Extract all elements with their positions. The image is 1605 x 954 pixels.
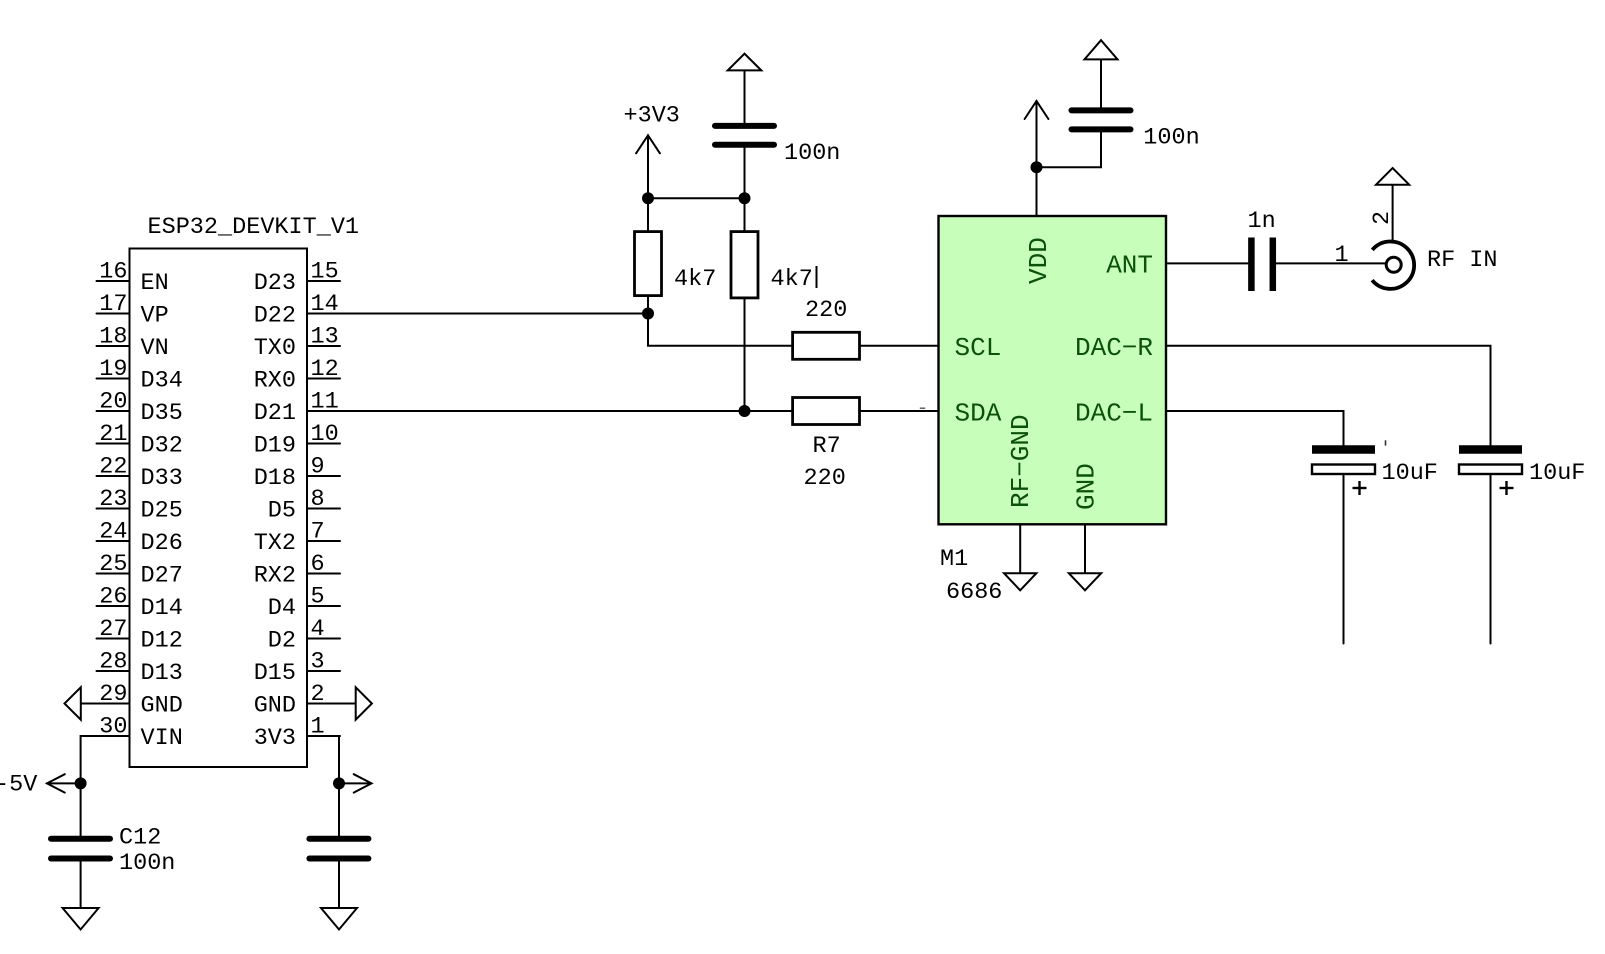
svg-text:D25: D25 (141, 498, 183, 525)
svg-text:D13: D13 (141, 660, 183, 687)
ESP32 left pin 17 VP (97, 291, 169, 330)
node D22 junction (642, 308, 654, 320)
ground symbol under C12 (63, 908, 99, 930)
svg-text:23: 23 (99, 486, 127, 513)
capacitor under 3V3 (309, 839, 368, 859)
node +3V3 right junction (739, 192, 751, 204)
ESP32 right pin 12 RX0 (254, 356, 340, 395)
svg-text:TX2: TX2 (254, 530, 296, 557)
svg-text:ANT: ANT (1106, 250, 1153, 280)
wire 4k7 right top (744, 198, 746, 231)
wire VIN pin30 to -5V node (81, 736, 130, 783)
ESP32 left pin 21 D32 (97, 421, 183, 460)
svg-text:17: 17 (99, 291, 127, 318)
wire 3V3 pin1 to right node (307, 736, 339, 783)
power label +3V3 (624, 103, 680, 232)
ESP32 right pin 10 D19 (254, 421, 340, 460)
svg-text:16: 16 (99, 259, 127, 286)
svg-text:1: 1 (1335, 242, 1349, 269)
svg-text:RX2: RX2 (254, 563, 296, 590)
wire below 10uF right (1490, 474, 1492, 644)
svg-text:22: 22 (99, 454, 127, 481)
svg-text:D5: D5 (268, 498, 296, 525)
resistor 4k7 right (731, 232, 817, 298)
ESP32 right pin 9 D18 (254, 454, 340, 493)
wire D22 to pullup node (307, 313, 648, 315)
svg-text:-5V: -5V (0, 772, 37, 799)
wire +3V3 rail horizontal (648, 197, 745, 199)
node -5V junction left (75, 777, 87, 789)
M1 GND pin ground (1069, 524, 1101, 590)
svg-text:10uF: 10uF (1529, 460, 1585, 487)
ESP32 right pin 3 D15 (254, 649, 340, 688)
resistor 4k7 left (635, 232, 717, 296)
svg-text:D22: D22 (254, 303, 296, 330)
svg-text:4: 4 (311, 616, 325, 643)
M1 pin name SDA (955, 399, 1002, 429)
svg-text:M1: M1 (940, 546, 968, 573)
svg-text:GND: GND (141, 693, 183, 720)
ESP32 right pin 13 TX0 (254, 324, 340, 363)
svg-text:24: 24 (99, 519, 127, 546)
svg-text:D18: D18 (254, 465, 296, 492)
ESP32 left pin 26 D14 (97, 584, 183, 623)
svg-text:C12: C12 (119, 825, 161, 852)
wire VDD node to 100n cap (1037, 132, 1102, 167)
wire below 10uF left (1343, 474, 1345, 644)
svg-text:D2: D2 (268, 628, 296, 655)
ESP32 left pin 27 D12 (97, 616, 183, 655)
svg-text:D21: D21 (254, 400, 296, 427)
ESP32 left pin 22 D33 (97, 454, 183, 493)
ESP32 left pin 29 GND (97, 681, 183, 720)
svg-text:1n: 1n (1248, 208, 1276, 235)
wire 4k7 left bottom to D22 node (647, 296, 649, 314)
stray tick artifact (1385, 440, 1387, 445)
wire right node to capacitor (338, 783, 340, 835)
svg-text:4k7: 4k7 (674, 266, 716, 293)
power symbol up triangle at VDD cap (1085, 40, 1118, 59)
svg-text:100n: 100n (784, 140, 840, 167)
svg-text:VP: VP (141, 303, 169, 330)
node VDD junction (1031, 161, 1043, 173)
ESP32 reference label ESP32_DEVKIT_V1 (148, 214, 360, 241)
svg-text:3V3: 3V3 (254, 725, 296, 752)
svg-text:GND: GND (254, 693, 296, 720)
svg-text:21: 21 (99, 421, 127, 448)
node SDA junction (739, 405, 751, 417)
svg-text:VIN: VIN (141, 725, 183, 752)
svg-text:R7: R7 (813, 433, 841, 460)
svg-text:15: 15 (311, 259, 339, 286)
power symbol up triangle at RF IN (1376, 168, 1409, 185)
svg-text:12: 12 (311, 356, 339, 383)
svg-text:10: 10 (311, 421, 339, 448)
svg-text:28: 28 (99, 649, 127, 676)
stray dash artifact near SDA pin (920, 407, 925, 409)
capacitor 100n at VDD (1072, 110, 1200, 151)
ESP32 left pin 23 D25 (97, 486, 183, 525)
power symbol up triangle above 100n (728, 54, 762, 123)
wire D21/SDA horizontal (307, 410, 745, 412)
svg-text:ESP32_DEVKIT_V1: ESP32_DEVKIT_V1 (148, 214, 360, 241)
svg-text:VDD: VDD (1024, 237, 1054, 284)
svg-text:D27: D27 (141, 563, 183, 590)
M1 pin name ANT (1106, 250, 1153, 280)
svg-text:27: 27 (99, 616, 127, 643)
svg-text:220: 220 (805, 297, 847, 324)
resistor R7 220 SDA (745, 398, 860, 493)
svg-text:19: 19 (99, 356, 127, 383)
svg-text:D12: D12 (141, 628, 183, 655)
ESP32 left pin 28 D13 (97, 649, 183, 688)
svg-text:D19: D19 (254, 433, 296, 460)
svg-text:RX0: RX0 (254, 368, 296, 395)
svg-text:DAC−R: DAC−R (1075, 333, 1153, 363)
svg-text:D26: D26 (141, 530, 183, 557)
wire capacitor to ground right (338, 862, 340, 909)
svg-text:RF−GND: RF−GND (1006, 414, 1036, 508)
ESP32 right pin 11 D21 (254, 389, 340, 428)
resistor 220 SCL (793, 297, 860, 359)
svg-text:D15: D15 (254, 660, 296, 687)
wire ANT to 1n cap (1166, 262, 1248, 264)
ESP32 left pin 24 D26 (97, 519, 183, 558)
svg-text:13: 13 (311, 324, 339, 351)
ESP32 left pin 25 D27 (97, 551, 183, 590)
ESP32 right pin 7 TX2 (254, 519, 340, 558)
svg-text:D33: D33 (141, 465, 183, 492)
connector J? RF IN coax (1372, 241, 1414, 288)
capacitor 10uF right polarized (1459, 450, 1585, 496)
svg-text:100n: 100n (119, 850, 175, 877)
capacitor 10uF left polarized (1312, 450, 1438, 496)
svg-text:D35: D35 (141, 400, 183, 427)
op chip M1 6686 body (939, 216, 1167, 524)
wire 4k7 right bottom to SDA node (744, 298, 746, 411)
svg-text:220: 220 (804, 465, 846, 492)
ESP32 right pin 1 3V3 (254, 714, 340, 753)
ground arrow on ESP32 pin 2 GND (307, 687, 372, 719)
node +3V3 left junction (642, 192, 654, 204)
ESP32 right pin 2 GND (254, 681, 340, 720)
svg-text:2: 2 (1369, 211, 1396, 225)
node right 3V3 junction (333, 777, 345, 789)
svg-text:TX0: TX0 (254, 335, 296, 362)
svg-text:D23: D23 (254, 270, 296, 297)
ESP32 right pin 4 D2 (268, 616, 340, 655)
ground symbol right (321, 908, 357, 930)
svg-text:D14: D14 (141, 595, 183, 622)
ground arrow on ESP32 pin 29 GND (65, 687, 130, 719)
wire 1n to RF IN pin 1 (1276, 242, 1386, 269)
svg-text:VN: VN (141, 335, 169, 362)
M1 pin name DAC-R (1075, 333, 1153, 363)
M1 reference labels (940, 546, 1002, 606)
svg-text:GND: GND (1072, 463, 1102, 510)
svg-text:3: 3 (311, 649, 325, 676)
svg-text:9: 9 (311, 454, 325, 481)
ESP32 left pin 16 EN (97, 259, 169, 298)
M1 pin name DAC-L (1075, 399, 1153, 429)
svg-text:+3V3: +3V3 (624, 103, 680, 130)
svg-text:D32: D32 (141, 433, 183, 460)
power arrow VDD (1025, 101, 1049, 167)
svg-text:RF IN: RF IN (1427, 247, 1498, 274)
wire C12 to ground (80, 862, 82, 909)
RF IN label (1427, 247, 1498, 274)
M1 pin name GND (1072, 463, 1102, 510)
ESP32 left pin 19 D34 (97, 356, 183, 395)
ESP32 left pin 18 VN (97, 324, 169, 363)
M1 pin name VDD (1024, 237, 1054, 284)
net arrow right (339, 774, 372, 792)
M1 RF-GND pin ground (1004, 524, 1036, 590)
capacitor 1n series (1248, 208, 1276, 291)
svg-text:SCL: SCL (955, 333, 1002, 363)
svg-text:25: 25 (99, 551, 127, 578)
svg-text:18: 18 (99, 324, 127, 351)
svg-text:4k7: 4k7 (771, 266, 813, 293)
wire 100n to rail (744, 148, 746, 199)
ESP32 right pin 5 D4 (268, 584, 340, 623)
capacitor C12 100n (51, 825, 175, 878)
wire R7 to SDA pin (860, 410, 939, 412)
RF IN pin 2 wire up (1369, 185, 1396, 241)
ESP32 module U? body (130, 249, 308, 768)
svg-text:D34: D34 (141, 368, 183, 395)
ESP32 right pin 6 RX2 (254, 551, 340, 590)
wire DAC-L to left cap (1166, 411, 1344, 445)
svg-text:6686: 6686 (946, 579, 1002, 606)
svg-text:SDA: SDA (955, 399, 1002, 429)
svg-text:100n: 100n (1143, 125, 1199, 152)
ESP32 left pin 20 D35 (97, 389, 183, 428)
wire VDD pin up (1036, 167, 1038, 216)
svg-text:D4: D4 (268, 595, 296, 622)
svg-text:20: 20 (99, 389, 127, 416)
net label -5V with arrow (0, 772, 81, 799)
wire -5V node to C12 (80, 783, 82, 835)
wire 100n to power triangle (1100, 59, 1102, 107)
svg-text:8: 8 (311, 486, 325, 513)
ESP32 right pin 8 D5 (268, 486, 340, 525)
ESP32 right pin 14 D22 (254, 291, 340, 330)
M1 pin name RF-GND (1006, 414, 1036, 508)
svg-text:EN: EN (141, 270, 169, 297)
ESP32 left pin 30 VIN (97, 714, 183, 753)
wire DAC-R to right cap (1166, 346, 1491, 446)
svg-text:6: 6 (311, 551, 325, 578)
svg-text:10uF: 10uF (1382, 460, 1438, 487)
M1 pin name SCL (955, 333, 1002, 363)
wire 220 to SCL pin (860, 345, 939, 347)
ESP32 right pin 15 D23 (254, 259, 340, 298)
svg-text:DAC−L: DAC−L (1075, 399, 1153, 429)
svg-text:5: 5 (311, 584, 325, 611)
wire D22 node down to SCL row (648, 314, 793, 346)
capacitor 100n top middle (715, 126, 840, 167)
svg-text:26: 26 (99, 584, 127, 611)
svg-text:7: 7 (311, 519, 325, 546)
